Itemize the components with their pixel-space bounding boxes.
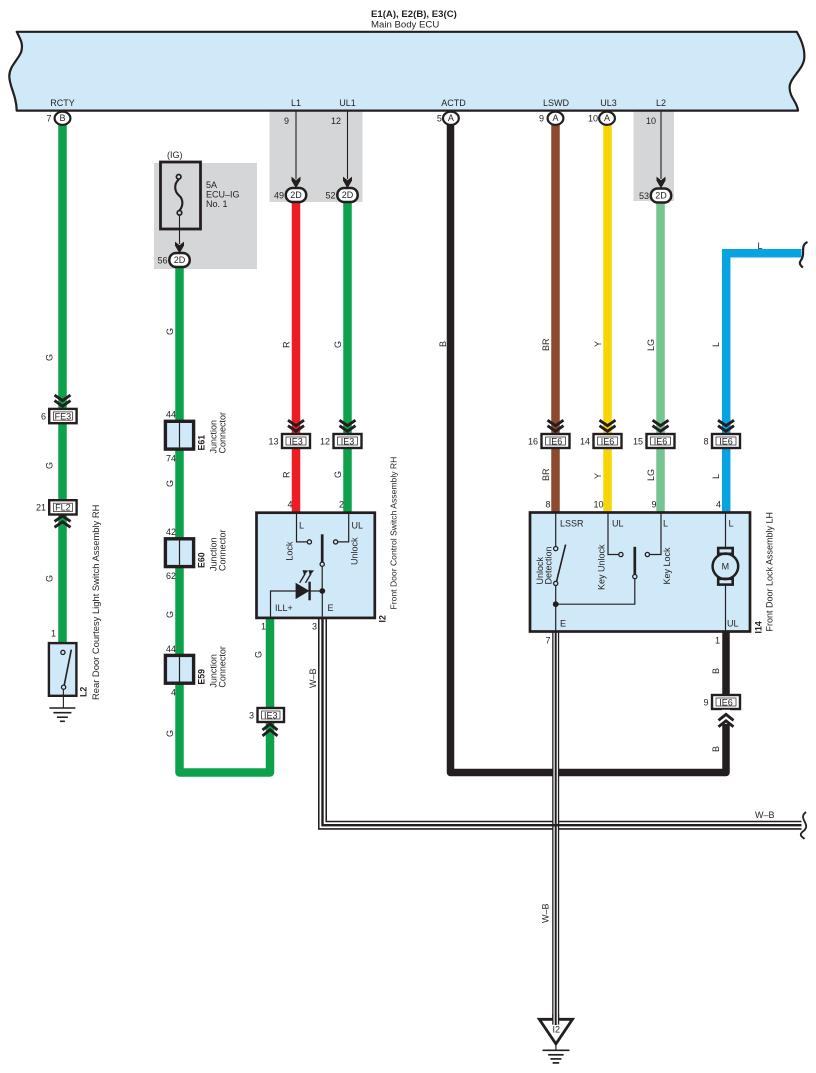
motor M <box>725 514 727 549</box>
svg-text:A: A <box>604 113 610 123</box>
chevron down above 16 IE6 <box>548 420 564 431</box>
svg-text:RCTY: RCTY <box>50 98 75 108</box>
svg-text:49: 49 <box>274 191 284 201</box>
svg-text:G: G <box>333 471 343 478</box>
svg-text:G: G <box>333 341 343 348</box>
wire W-B end overlapping ground triangle <box>552 1014 559 1025</box>
wire L blue <box>726 253 801 513</box>
junction connector E59 <box>165 655 193 683</box>
connector 16 IE6 <box>542 434 570 448</box>
svg-text:Y: Y <box>593 473 603 479</box>
pin 10 circle A <box>599 112 615 125</box>
connector 21 FL2 <box>49 500 76 514</box>
svg-text:L: L <box>729 519 734 529</box>
shaded area IG fuse block <box>154 163 257 269</box>
svg-text:44: 44 <box>166 644 176 654</box>
svg-text:BR: BR <box>541 468 551 481</box>
wire W-B from control switch pin 3 to right edge (outline) <box>323 617 802 825</box>
key lock contact <box>645 552 649 556</box>
svg-text:Front Door Lock Assembly LH: Front Door Lock Assembly LH <box>765 512 775 632</box>
svg-text:42: 42 <box>166 527 176 537</box>
svg-text:56: 56 <box>157 256 167 266</box>
svg-text:1: 1 <box>715 636 720 646</box>
svg-text:2D: 2D <box>174 255 186 265</box>
svg-text:Unlock: Unlock <box>350 537 360 565</box>
connector 52 2D <box>337 188 357 202</box>
svg-text:L: L <box>299 521 304 531</box>
svg-text:IE6: IE6 <box>601 436 615 446</box>
svg-text:IE6: IE6 <box>719 436 733 446</box>
pin 9 circle A <box>548 112 564 125</box>
svg-text:62: 62 <box>166 571 176 581</box>
svg-text:5A: 5A <box>206 180 217 190</box>
svg-text:LSSR: LSSR <box>560 519 584 529</box>
svg-text:G: G <box>45 462 55 469</box>
connector 3 IE3 <box>258 708 285 722</box>
svg-text:LG: LG <box>646 469 656 481</box>
svg-text:LSWD: LSWD <box>543 98 570 108</box>
LED illumination <box>296 583 310 599</box>
svg-text:4: 4 <box>716 500 721 510</box>
svg-text:G: G <box>45 354 55 361</box>
svg-text:74: 74 <box>166 454 176 464</box>
junction dot lock E <box>553 601 559 607</box>
wire W-B from lock pin 7 to ground (outline) <box>552 630 559 1026</box>
svg-text:ACTD: ACTD <box>441 98 466 108</box>
svg-text:FE3: FE3 <box>55 411 72 421</box>
svg-text:IE3: IE3 <box>341 436 355 446</box>
connector 14 IE6 <box>594 434 622 448</box>
svg-text:L: L <box>758 241 763 251</box>
svg-text:7: 7 <box>46 114 51 124</box>
svg-text:Main Body ECU: Main Body ECU <box>371 20 439 31</box>
pin 5 circle A <box>443 112 459 125</box>
svg-text:10: 10 <box>593 500 603 510</box>
arrow L2 to 2D <box>660 111 662 180</box>
svg-text:IE6: IE6 <box>549 436 563 446</box>
svg-text:L2: L2 <box>656 98 666 108</box>
connector 13 IE3 <box>282 434 310 448</box>
svg-text:No. 1: No. 1 <box>206 199 228 209</box>
control switch UL lead <box>338 514 349 542</box>
svg-text:B: B <box>711 746 721 752</box>
svg-text:G: G <box>165 730 175 737</box>
chevron down above 15 IE6 <box>653 420 669 431</box>
svg-text:1: 1 <box>261 622 266 632</box>
LED anode wire to pin 1 <box>271 591 296 617</box>
wire G RCTY <box>58 124 67 645</box>
svg-text:9: 9 <box>539 114 544 124</box>
svg-text:L1: L1 <box>291 98 301 108</box>
svg-text:IE3: IE3 <box>264 710 278 720</box>
svg-text:2: 2 <box>339 500 344 510</box>
svg-text:Detection: Detection <box>544 546 554 584</box>
svg-text:G: G <box>45 575 55 582</box>
svg-text:BR: BR <box>541 338 551 351</box>
svg-text:10: 10 <box>646 116 656 126</box>
svg-text:G: G <box>165 480 175 487</box>
chevron up below FL2 <box>55 516 71 527</box>
ground triangle I2 <box>539 1019 572 1044</box>
ground hatch <box>543 1049 570 1051</box>
svg-text:IE3: IE3 <box>289 436 303 446</box>
svg-text:3: 3 <box>249 710 254 720</box>
connector 49 2D <box>286 188 306 202</box>
connector 56 2D <box>169 253 189 267</box>
svg-text:12: 12 <box>331 116 341 126</box>
junction dot E <box>319 588 325 594</box>
svg-text:G: G <box>165 611 175 618</box>
svg-text:UL1: UL1 <box>339 98 356 108</box>
svg-text:5: 5 <box>437 114 442 124</box>
svg-text:Connector: Connector <box>218 412 228 454</box>
svg-text:IE6: IE6 <box>654 436 668 446</box>
svg-text:E: E <box>328 603 334 613</box>
key unlock contact <box>608 514 618 555</box>
wire G UL1 <box>343 201 352 514</box>
svg-text:Front Door Control Switch Asse: Front Door Control Switch Assembly RH <box>389 457 399 610</box>
svg-text:2D: 2D <box>290 190 302 200</box>
junction connector E60 <box>165 539 193 567</box>
svg-text:15: 15 <box>633 436 643 446</box>
key switch pole <box>633 547 636 575</box>
svg-text:2D: 2D <box>655 191 667 201</box>
wire R L1 <box>292 201 301 514</box>
svg-text:9: 9 <box>703 697 708 707</box>
svg-text:12: 12 <box>320 436 330 446</box>
svg-text:E61: E61 <box>197 435 207 451</box>
break symbol blue wire <box>800 242 808 268</box>
junction connector E61 <box>165 421 193 449</box>
ground rear door switch <box>49 707 75 709</box>
svg-text:W–B: W–B <box>541 903 551 923</box>
svg-text:R: R <box>282 341 292 348</box>
svg-text:I2: I2 <box>553 1024 561 1034</box>
wire BR LSWD <box>551 124 560 513</box>
svg-text:L: L <box>663 519 668 529</box>
wire G from fuse 2D to IE3 <box>180 266 271 773</box>
connector 8 IE6 <box>712 434 740 448</box>
wire W-B stripe vertical <box>555 630 557 1026</box>
svg-text:Lock: Lock <box>284 541 294 561</box>
arrow fuse to 2D <box>179 216 181 244</box>
svg-text:E1(A), E2(B), E3(C): E1(A), E2(B), E3(C) <box>371 9 457 20</box>
connector 12 IE3 <box>334 434 362 448</box>
svg-text:UL: UL <box>352 521 364 531</box>
svg-text:Rear Door Courtesy Light Switc: Rear Door Courtesy Light Switch Assembly… <box>90 505 101 700</box>
chevron down above 14 IE6 <box>600 420 616 431</box>
svg-text:44: 44 <box>166 410 176 420</box>
svg-text:52: 52 <box>325 191 335 201</box>
wire LG L2 <box>656 201 665 513</box>
svg-text:UL3: UL3 <box>600 98 617 108</box>
svg-text:13: 13 <box>268 436 278 446</box>
svg-text:FL2: FL2 <box>55 503 71 513</box>
svg-text:53: 53 <box>639 191 649 201</box>
chevron down above 8 IE6 <box>718 420 734 431</box>
svg-text:A: A <box>448 113 454 123</box>
svg-text:I2: I2 <box>378 615 388 622</box>
svg-text:E60: E60 <box>197 552 207 568</box>
svg-text:Key Lock: Key Lock <box>662 547 672 585</box>
svg-text:Connector: Connector <box>218 646 228 688</box>
connector 53 2D <box>651 189 671 203</box>
svg-text:4: 4 <box>171 688 176 698</box>
wire Y UL3 <box>603 124 612 513</box>
svg-text:6: 6 <box>41 412 46 422</box>
control switch L lead <box>297 514 307 542</box>
svg-text:3: 3 <box>312 622 317 632</box>
svg-text:B: B <box>711 668 721 674</box>
svg-text:G: G <box>165 328 175 335</box>
svg-text:UL: UL <box>727 619 739 629</box>
wire W-B stripe horizontal <box>323 617 802 825</box>
svg-text:E: E <box>560 619 566 629</box>
svg-text:10: 10 <box>588 114 598 124</box>
svg-text:2D: 2D <box>342 190 354 200</box>
svg-text:4: 4 <box>287 500 292 510</box>
svg-text:UL: UL <box>612 519 624 529</box>
svg-text:ECU–IG: ECU–IG <box>206 190 240 200</box>
svg-text:Y: Y <box>593 341 603 347</box>
svg-text:G: G <box>254 651 264 658</box>
svg-text:9: 9 <box>284 116 289 126</box>
svg-text:14: 14 <box>580 436 590 446</box>
arrow UL1 to 2D <box>347 111 349 180</box>
svg-text:Key Unlock: Key Unlock <box>597 544 607 590</box>
shaded area L2 connector 2D <box>634 110 675 201</box>
svg-text:ILL+: ILL+ <box>275 603 293 613</box>
chevron down above 13 IE3 <box>288 420 304 431</box>
svg-text:1: 1 <box>51 629 56 639</box>
svg-text:8: 8 <box>545 500 550 510</box>
svg-text:W–B: W–B <box>308 668 318 688</box>
svg-text:L: L <box>711 474 721 479</box>
unlock detection switch <box>555 514 557 547</box>
arrow L1 to 2D <box>295 111 297 180</box>
pin 7 circle B <box>55 112 71 125</box>
svg-text:W–B: W–B <box>755 810 775 820</box>
shaded area L1/UL1 connector 2D <box>270 110 363 202</box>
connector 6 FE3 <box>49 409 76 423</box>
svg-text:Connector: Connector <box>218 529 228 571</box>
front door control switch assembly I2 box <box>257 513 375 618</box>
chevron up below 9 IE6 <box>722 710 730 724</box>
svg-text:IE6: IE6 <box>719 697 733 707</box>
chevron down above 12 IE3 <box>340 420 356 431</box>
control switch pole <box>321 534 324 562</box>
svg-text:L: L <box>711 342 721 347</box>
svg-text:A: A <box>552 113 558 123</box>
chevron up below 3 IE3 <box>263 724 278 736</box>
svg-text:7: 7 <box>545 636 550 646</box>
svg-text:B: B <box>59 113 65 123</box>
svg-text:(IG): (IG) <box>167 150 183 160</box>
svg-text:B: B <box>438 341 448 347</box>
svg-text:I14: I14 <box>754 621 764 633</box>
svg-text:LG: LG <box>646 339 656 351</box>
chevron down above FE3 <box>55 395 71 406</box>
front door lock assembly I14 box <box>530 513 750 632</box>
svg-text:M: M <box>722 562 730 572</box>
connector 15 IE6 <box>647 434 675 448</box>
svg-text:9: 9 <box>651 500 656 510</box>
svg-text:L2: L2 <box>79 687 89 697</box>
Main Body ECU band <box>9 32 804 111</box>
svg-text:8: 8 <box>703 436 708 446</box>
wire B ACTD to lock pin 1 (thick black) <box>451 124 727 773</box>
svg-text:16: 16 <box>528 436 538 446</box>
break symbol W-B wire <box>801 812 806 839</box>
svg-text:R: R <box>282 471 292 478</box>
connector 9 IE6 <box>712 695 740 709</box>
svg-text:E59: E59 <box>197 669 207 685</box>
svg-text:21: 21 <box>36 503 46 513</box>
